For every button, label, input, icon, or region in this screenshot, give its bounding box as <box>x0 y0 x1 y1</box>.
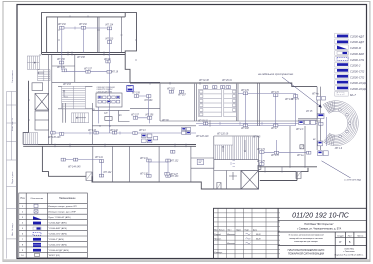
right rooms <box>290 87 320 168</box>
svg-text:ИП 144-145: ИП 144-145 <box>68 165 81 168</box>
svg-text:ИП 160: ИП 160 <box>145 100 154 102</box>
svg-text:ИП 157: ИП 157 <box>131 114 140 116</box>
stair A treads <box>27 56 39 69</box>
svg-text:ИП 158: ИП 158 <box>77 57 86 59</box>
interior walls <box>49 17 321 190</box>
wire cross ticks <box>75 27 300 167</box>
svg-text:на кабельное пространство: на кабельное пространство <box>258 72 294 76</box>
svg-text:С2000-2: С2000-2 <box>350 64 361 68</box>
svg-text:ИП 30-31: ИП 30-31 <box>198 120 209 122</box>
svg-text:"С2000-КДЛ" (АРБ): "С2000-КДЛ" (АРБ) <box>48 222 67 225</box>
svg-text:ИУ 15: ИУ 15 <box>306 111 313 113</box>
svg-text:С2000-КДЛ: С2000-КДЛ <box>350 34 364 38</box>
equipment cluster room <box>96 93 122 107</box>
table symbols <box>33 204 42 256</box>
legend symbol С2000-СП2 <box>337 69 348 72</box>
svg-text:г.Тольятти: г.Тольятти <box>343 251 355 253</box>
svg-text:Листов: Листов <box>357 235 363 237</box>
lift shaft X upper-left <box>32 83 49 130</box>
detector ИП157 <box>86 70 90 73</box>
toilet stalls column 1 <box>199 89 222 116</box>
АПС device room box <box>197 159 203 164</box>
svg-text:ИП 130: ИП 130 <box>140 173 149 175</box>
svg-text:ИП 149: ИП 149 <box>57 66 66 69</box>
center stair treads <box>214 136 257 160</box>
svg-text:ИП 176: ИП 176 <box>271 155 280 157</box>
svg-text:ИП 114: ИП 114 <box>106 24 114 27</box>
svg-text:на ИУФ-МФ БАД: на ИУФ-МФ БАД <box>344 179 361 182</box>
svg-text:"С2000-4/СДИ" (АРБ): "С2000-4/СДИ" (АРБ) <box>48 249 69 252</box>
svg-text:Инв. № подл.: Инв. № подл. <box>11 223 14 236</box>
svg-text:ИП 133: ИП 133 <box>171 176 180 178</box>
svg-text:ИП 167: ИП 167 <box>178 94 187 96</box>
legend symbol С2000-4СДИ <box>337 81 348 84</box>
leader bottom right <box>322 161 351 178</box>
svg-text:ИП 128-129: ИП 128-129 <box>196 136 209 138</box>
svg-text:ИП 152: ИП 152 <box>79 24 88 26</box>
svg-text:ПОЖАРНОЙ СИГНАЛИЗАЦИИ: ПОЖАРНОЙ СИГНАЛИЗАЦИИ <box>288 253 324 256</box>
device boxes corridor mid cluster <box>182 127 191 134</box>
wing west wall <box>23 81 28 145</box>
svg-text:03.20: 03.20 <box>256 239 261 241</box>
center stair block <box>214 136 259 190</box>
lift X center <box>229 171 259 190</box>
svg-text:ИП 142: ИП 142 <box>110 129 119 132</box>
legend symbol С2000-4СДИ2 <box>337 87 348 90</box>
stair B <box>38 70 50 81</box>
legend symbol С2000-СП2b <box>337 75 348 78</box>
svg-text:ИП 32-38: ИП 32-38 <box>199 80 210 82</box>
legend symbol С2000-КДЛ <box>337 35 348 38</box>
blue device cluster right <box>299 97 329 156</box>
svg-text:ИП 175: ИП 175 <box>257 161 266 163</box>
door small boxes <box>86 145 304 189</box>
detector ИП152b <box>81 26 85 29</box>
svg-text:ИП 2-3: ИП 2-3 <box>296 129 304 131</box>
outline top-left block <box>23 13 317 189</box>
svg-text:ИП 153: ИП 153 <box>63 84 72 86</box>
band main horizontal walls <box>23 145 196 147</box>
svg-text:"БРИЗ" (КЗ): "БРИЗ" (КЗ) <box>48 255 60 257</box>
legend symbol С2000-БКИ <box>337 51 348 54</box>
svg-text:Иванова: Иванова <box>227 243 236 245</box>
svg-text:Лист: Лист <box>348 235 352 237</box>
svg-text:ИП 173: ИП 173 <box>285 99 294 101</box>
wing interior <box>49 55 196 145</box>
detector ИП19 <box>107 70 111 73</box>
detector ИП152 <box>60 26 64 29</box>
corridor walls <box>130 83 320 126</box>
svg-text:ИП 4-5: ИП 4-5 <box>253 136 261 139</box>
svg-text:ИП 156: ИП 156 <box>146 114 155 116</box>
svg-text:Поз: Поз <box>20 197 24 200</box>
svg-text:"С2000-СП2" (АРБ): "С2000-СП2" (АРБ) <box>48 243 67 246</box>
svg-text:Подп: Подп <box>245 229 249 231</box>
svg-text:ИП 120-19: ИП 120-19 <box>217 134 229 136</box>
door tick marks <box>28 16 282 173</box>
arc dots <box>339 109 352 138</box>
svg-text:С2000-М: С2000-М <box>350 46 362 50</box>
bottom outline right <box>259 167 318 181</box>
svg-text:"С2000-СП1" (АРБ): "С2000-СП1" (АРБ) <box>48 232 67 235</box>
stair arrows <box>38 72 247 152</box>
detector ИП110 <box>107 41 111 44</box>
svg-text:Р: Р <box>339 240 341 244</box>
wall y52-54.5 <box>42 53 125 55</box>
svg-text:ИП 131: ИП 131 <box>140 158 149 160</box>
svg-text:С2000-СП2: С2000-СП2 <box>350 70 365 74</box>
left stamp column <box>7 92 18 259</box>
legend symbol С2000-СП1 dashed <box>337 58 348 61</box>
svg-text:Согласовано: Согласовано <box>12 70 14 83</box>
room detectors mid band <box>134 95 138 98</box>
band top wall <box>130 83 317 87</box>
svg-text:С2000-4/СДИ: С2000-4/СДИ <box>350 87 367 91</box>
toilet stalls column 2 <box>224 89 237 116</box>
svg-text:БА-7: БА-7 <box>350 93 356 97</box>
svg-text:ИП 1-9: ИП 1-9 <box>335 148 343 150</box>
svg-text:АУ: АУ <box>91 109 95 112</box>
svg-text:Обозначение: Обозначение <box>30 198 44 200</box>
stair bottom-left hatched <box>23 133 38 145</box>
svg-text:ИП 142: ИП 142 <box>104 171 113 174</box>
legend symbol С2000-КДЛ2 <box>337 41 348 44</box>
svg-text:Извещат. пожарн. дымов. ИП: Извещат. пожарн. дымов. ИП <box>48 206 77 208</box>
svg-text:ИП 174: ИП 174 <box>257 148 266 151</box>
stair small lower <box>71 113 88 123</box>
svg-text:Лист: Лист <box>228 229 232 231</box>
svg-text:С2000-БКИ: С2000-БКИ <box>350 52 364 56</box>
svg-text:ИП 4а: ИП 4а <box>312 93 319 96</box>
svg-text:"С2000-БКИ" (АРБ): "С2000-БКИ" (АРБ) <box>48 227 67 230</box>
svg-text:ИП 152: ИП 152 <box>58 24 67 26</box>
legend symbol БА-7 <box>337 92 344 95</box>
svg-text:Кол.уч: Кол.уч <box>219 229 224 231</box>
leader to cable space <box>282 77 322 108</box>
svg-text:С2000-СП2: С2000-СП2 <box>350 75 365 79</box>
svg-text:ИП 162: ИП 162 <box>167 88 176 90</box>
С2000-М console blue box <box>127 86 133 92</box>
svg-text:Извещат. пожарн. ручн. ИПР: Извещат. пожарн. ручн. ИПР <box>48 212 76 214</box>
svg-text:С2000-4/СДИ: С2000-4/СДИ <box>350 81 367 85</box>
device boxes corridor left cluster <box>142 134 158 143</box>
svg-text:Провер.: Провер. <box>214 239 222 241</box>
lower band rooms <box>93 146 214 182</box>
corridor detectors lower <box>51 131 55 134</box>
svg-text:ИП 13: ИП 13 <box>139 130 146 132</box>
svg-text:ИП 132: ИП 132 <box>171 161 180 163</box>
svg-text:03.20: 03.20 <box>256 234 261 236</box>
stair big (two flights) <box>62 86 86 109</box>
svg-text:оповещения при пожаре: оповещения при пожаре <box>294 241 319 243</box>
detector ИП149 <box>62 69 66 72</box>
svg-text:ИП 157: ИП 157 <box>84 68 93 70</box>
svg-text:ИП 145-148: ИП 145-148 <box>48 136 61 139</box>
svg-text:ИП 17: ИП 17 <box>271 128 278 130</box>
svg-text:ИП 19: ИП 19 <box>112 72 119 74</box>
svg-text:Иванова: Иванова <box>227 234 236 236</box>
svg-text:Лицензия Р-а по ПБ от 2015 г.: Лицензия Р-а по ПБ от 2015 г. <box>333 254 364 256</box>
detector ИП150 <box>59 61 63 64</box>
svg-text:ИП 172: ИП 172 <box>271 92 280 94</box>
svg-text:ИП 143: ИП 143 <box>88 129 97 132</box>
svg-text:Дата: Дата <box>253 229 257 231</box>
lower rooms <box>61 158 65 161</box>
legend symbol С2000-М triangle <box>337 46 347 50</box>
svg-text:С/У: С/У <box>104 113 108 115</box>
svg-text:ИП 28-31: ИП 28-31 <box>222 80 233 82</box>
svg-text:С2000-4/СДИ БРИЗ: С2000-4/СДИ БРИЗ <box>97 90 112 93</box>
svg-text:Подп. и дата: Подп. и дата <box>12 171 14 184</box>
svg-text:"С2000-2" (АРБ): "С2000-2" (АРБ) <box>48 238 64 241</box>
svg-text:Установка автоматической офисн: Установка автоматической офисной <box>289 234 325 237</box>
svg-text:Пульт "С2000-М" (АРБ): Пульт "С2000-М" (АРБ) <box>48 216 71 219</box>
svg-text:ИП 110: ИП 110 <box>106 38 114 40</box>
svg-text:Н.контр.: Н.контр. <box>214 252 223 254</box>
svg-text:№док: №док <box>236 228 241 231</box>
svg-text:ИП 150: ИП 150 <box>57 59 66 61</box>
door diagonal marks <box>87 145 304 188</box>
svg-text:ООО ПКЦ: ООО ПКЦ <box>344 248 354 250</box>
sheet shadow <box>3 259 370 261</box>
legend symbol С2000-2 <box>337 63 348 66</box>
svg-text:С/У: С/У <box>128 86 132 88</box>
svg-text:Наименование: Наименование <box>59 197 76 200</box>
svg-text:Разраб.: Разраб. <box>214 234 222 236</box>
svg-text:Стадия: Стадия <box>337 235 343 237</box>
svg-text:Взам. инв. №: Взам. инв. № <box>11 117 14 131</box>
svg-text:ИП 168: ИП 168 <box>241 128 250 130</box>
svg-text:С2000-СП1: С2000-СП1 <box>350 58 365 62</box>
svg-text:ИП 30: ИП 30 <box>162 120 169 122</box>
svg-text:г. Самара, ул. Чернореченская,: г. Самара, ул. Чернореченская, д. 57А <box>297 227 342 230</box>
svg-text:С2000-КДЛ: С2000-КДЛ <box>350 40 364 44</box>
bottom outline left <box>42 146 258 189</box>
detector ИП114 <box>107 27 111 30</box>
svg-text:ИП 19: ИП 19 <box>104 59 111 61</box>
svg-text:пожарной сигнализации и систем: пожарной сигнализации и система <box>289 237 323 240</box>
detector ИП19b <box>106 60 110 63</box>
svg-text:011/20 192 10-ПС: 011/20 192 10-ПС <box>292 213 350 220</box>
svg-text:ИП 159: ИП 159 <box>132 93 141 95</box>
svg-text:ПАО Банк "ФК Открытие": ПАО Банк "ФК Открытие" <box>304 223 333 226</box>
svg-text:ИП 170: ИП 170 <box>241 90 250 92</box>
svg-text:ИП 1а: ИП 1а <box>297 155 304 157</box>
top-left block interior <box>58 17 122 53</box>
signature table texts <box>214 228 257 231</box>
svg-text:ИП 141: ИП 141 <box>95 156 104 159</box>
svg-text:ИП 127: ИП 127 <box>170 174 179 176</box>
